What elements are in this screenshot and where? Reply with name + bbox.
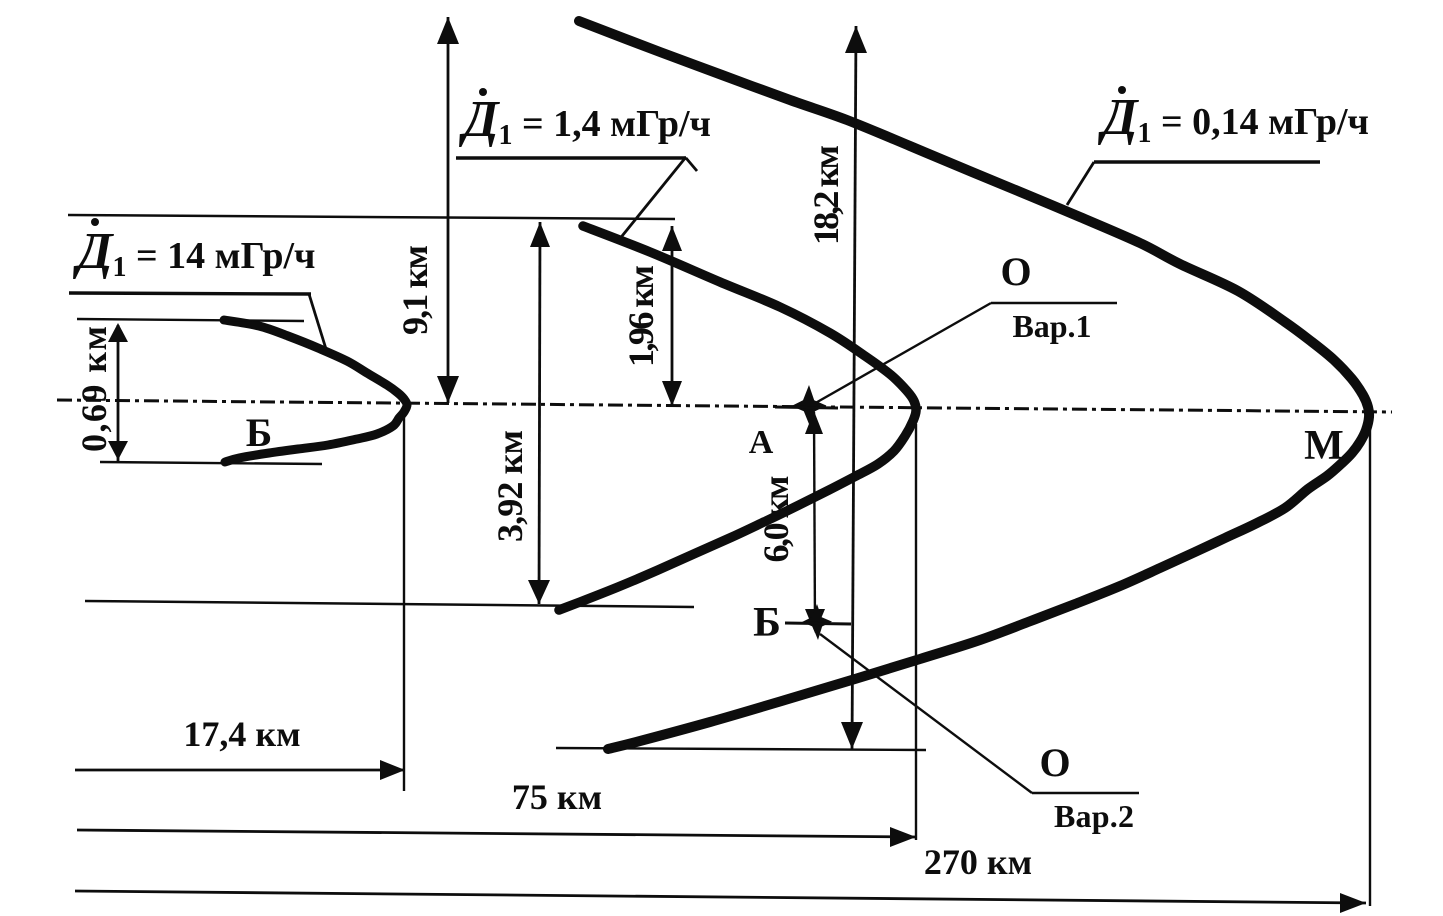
vertical extension below vertex M [1369,424,1371,906]
svg-text:Б: Б [246,410,272,455]
extension line bottom of 18.2 km dimension (y=749) [556,748,926,750]
vertical extension below vertex B [403,408,405,791]
label D1 = 0,14 mGr/h with leader [1067,86,1369,205]
svg-text:75 км: 75 км [512,777,602,817]
label D1 = 14 mGr/h with leader [69,218,326,349]
svg-text:А: А [749,424,774,461]
svg-text:Вар.1: Вар.1 [1013,308,1092,344]
dimension 9,1 km (vertical double arrow) [395,17,459,403]
point B star with tick [802,604,832,640]
zone curve A (middle, D=1.4 mGr/h) [559,226,916,610]
point O var.2 label with leader [820,634,1139,834]
dimension 75 km (horizontal arrow) [77,777,916,847]
extension line top of zone A (y=217) [68,215,675,219]
svg-text:270 км: 270 км [924,842,1032,882]
svg-text:О: О [1000,249,1031,294]
dimension 18,2 km (vertical double arrow) [806,26,867,749]
svg-text:9,1 км: 9,1 км [395,245,435,335]
svg-text:1,96 км: 1,96 км [621,265,661,367]
dimension 270 km (horizontal arrow) [75,842,1366,913]
zone curve B (inner, D=14 mGr/h) [224,320,407,462]
zone curve M (outer, D=0.14 mGr/h) [579,21,1369,749]
star at point O var.1 / A [792,385,827,427]
dimension 17,4 km (horizontal arrow) [75,714,405,780]
svg-text:0,69 км: 0,69 км [74,326,114,452]
extension line top of zone B (y=320) [77,319,304,321]
svg-text:6,0 км: 6,0 км [756,476,796,563]
extension line bottom of zone A (y=604) [85,601,694,607]
dimension 1,96 km (vertical double arrow) [621,226,682,406]
dimension 3,92 km (vertical double arrow) [490,222,550,604]
svg-text:О: О [1039,740,1070,785]
svg-text:Вар.2: Вар.2 [1054,798,1134,834]
dimension 6,0 km (vertical, between points O var.1 and B) [756,411,825,633]
tick through star A [775,407,838,408]
vertical extension below vertex A [915,424,917,840]
svg-text:18,2 км: 18,2 км [806,145,846,245]
label D1 = 1,4 mGr/h with leader [456,88,711,241]
axis centerline (dash-dot) [57,400,1392,412]
svg-text:М: М [1304,423,1344,469]
dimension 0,69 km (vertical double arrow) [74,323,128,461]
point O var.1 label with leader [812,249,1117,405]
svg-text:3,92 км: 3,92 км [490,430,530,542]
svg-text:Б: Б [753,600,781,646]
svg-text:17,4 км: 17,4 км [183,714,300,754]
extension line bottom of zone B (y=463) [100,462,322,464]
